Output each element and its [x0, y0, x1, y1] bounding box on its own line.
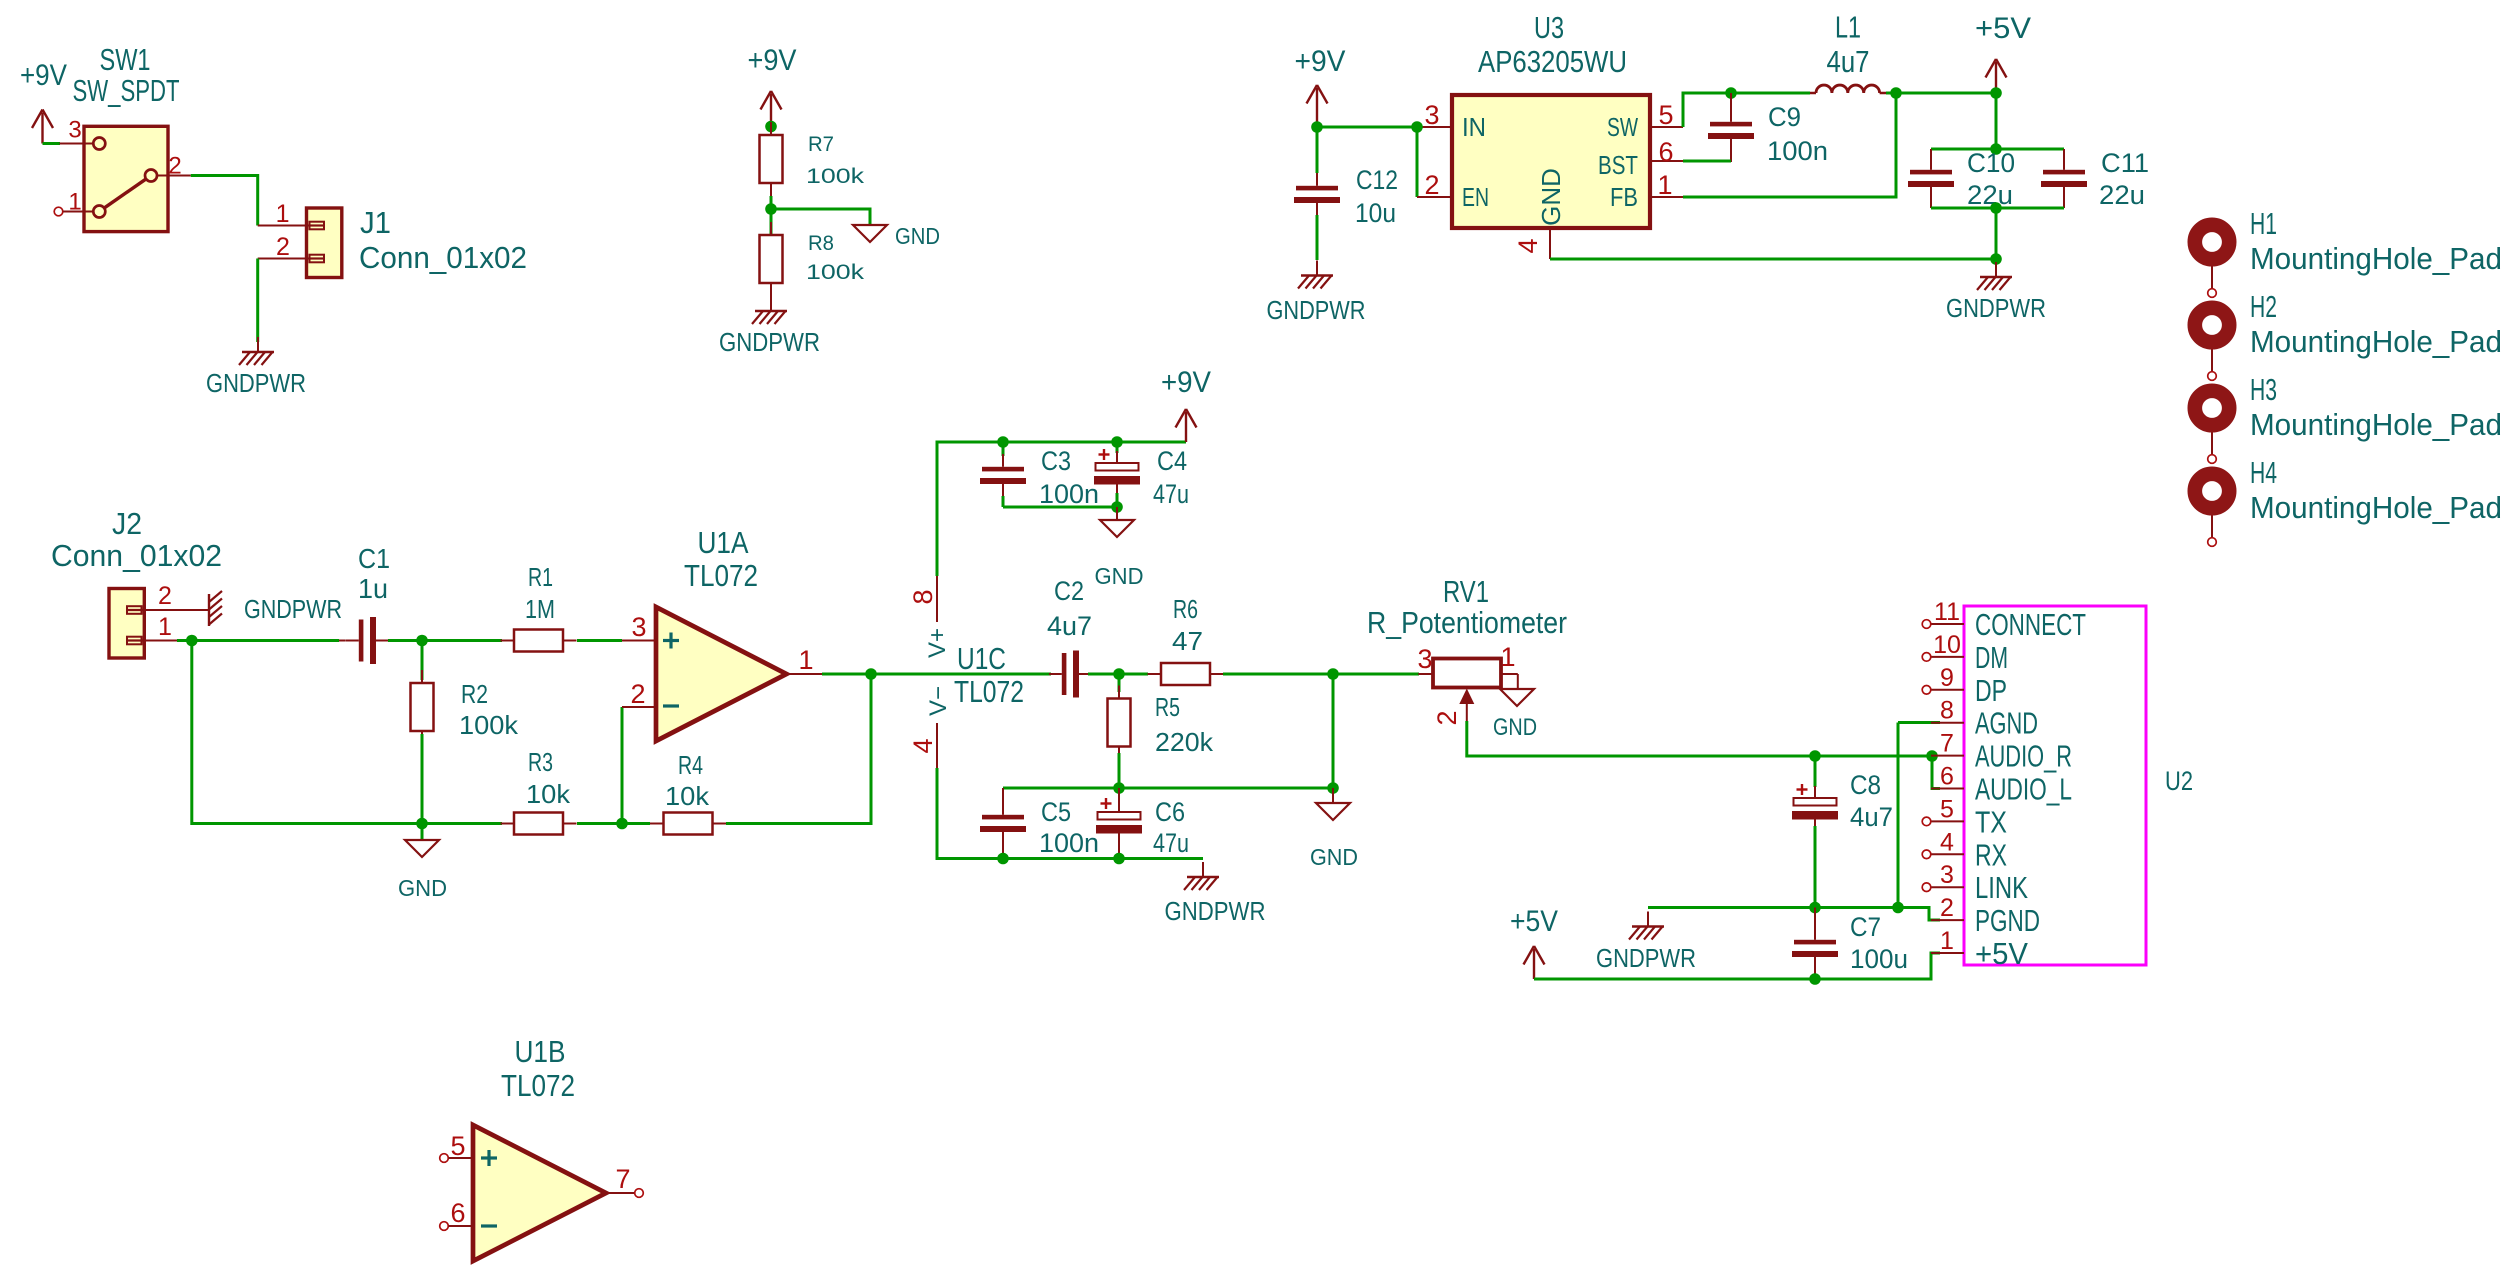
ground symbol GND (divider) — [853, 225, 887, 242]
svg-text:GNDPWR: GNDPWR — [244, 594, 342, 624]
svg-text:10u: 10u — [1355, 198, 1396, 228]
wire V+ to +9V rail — [937, 442, 1186, 576]
wire PGND rail — [1648, 906, 1898, 909]
ground symbol GNDPWR (R8) — [752, 296, 787, 324]
pin 7 U1B — [606, 1189, 643, 1198]
pin 3 U1A — [622, 640, 656, 642]
svg-text:+9V: +9V — [1295, 45, 1346, 78]
junction C4 top — [1111, 436, 1123, 448]
svg-text:7: 7 — [1940, 730, 1954, 758]
svg-text:2: 2 — [1432, 710, 1462, 725]
wire SW1 pin2 to J1 pin1 — [191, 176, 258, 226]
svg-text:PGND: PGND — [1975, 903, 2040, 938]
svg-text:10k: 10k — [526, 779, 571, 809]
svg-text:Conn_01x02: Conn_01x02 — [51, 538, 222, 573]
wire RV1 wiper to U2 AUDIO — [1467, 721, 1932, 756]
ground symbol GNDPWR (J2) — [209, 591, 222, 626]
svg-text:4: 4 — [908, 738, 938, 753]
potentiometer RV1 — [1418, 659, 1518, 722]
svg-text:22u: 22u — [2099, 180, 2145, 210]
svg-text:+5V: +5V — [1975, 936, 2028, 971]
svg-text:TL072: TL072 — [501, 1068, 575, 1103]
svg-text:22u: 22u — [1967, 180, 2013, 210]
capacitor C4 (polarized) — [1094, 442, 1140, 507]
svg-text:3: 3 — [1940, 861, 1954, 889]
svg-text:+9V: +9V — [748, 44, 797, 77]
svg-text:+9V: +9V — [1161, 366, 1211, 399]
wire EN tap — [1416, 127, 1419, 197]
capacitor C3 — [980, 442, 1026, 507]
svg-text:4: 4 — [1513, 238, 1543, 253]
junction C8 bottom — [1809, 902, 1821, 914]
svg-text:C6: C6 — [1155, 797, 1185, 827]
capacitor C11 — [2041, 149, 2087, 208]
wire SW to top rail — [1683, 93, 1810, 127]
ground symbol GND (C4) — [1100, 507, 1134, 537]
junction C5 bottom — [997, 853, 1009, 865]
wire U3 GND pin rail — [1550, 258, 1996, 261]
svg-text:MountingHole_Pad: MountingHole_Pad — [2250, 490, 2502, 525]
svg-text:H1: H1 — [2250, 206, 2277, 241]
wire +9V to SW1 pin 3 — [43, 142, 61, 145]
svg-text:9: 9 — [1940, 664, 1954, 692]
svg-text:FB: FB — [1610, 182, 1638, 212]
svg-text:C3: C3 — [1041, 446, 1071, 476]
junction AUDIO_R — [1926, 750, 1938, 762]
svg-text:TL072: TL072 — [684, 558, 758, 593]
svg-text:GND: GND — [1493, 714, 1537, 741]
ground symbol GNDPWR (U1C) — [1184, 862, 1219, 890]
svg-text:Conn_01x02: Conn_01x02 — [359, 240, 527, 275]
pin 2 EN (U3) — [1417, 196, 1452, 198]
resistor R8 — [760, 222, 783, 296]
pin 3 IN (U3) — [1417, 126, 1452, 128]
wire R3 to R4 — [577, 822, 650, 825]
svg-text:GNDPWR: GNDPWR — [1267, 295, 1366, 325]
svg-text:5: 5 — [1940, 795, 1954, 823]
junction +5V — [1990, 87, 2002, 99]
wire AUDIO_R to AUDIO_L — [1932, 756, 1940, 789]
svg-text:H2: H2 — [2250, 289, 2277, 324]
pin 5 TX (U2) — [1922, 817, 1964, 826]
svg-text:C4: C4 — [1157, 446, 1187, 476]
power symbol +5V (U2) — [1510, 905, 1558, 979]
svg-text:C5: C5 — [1041, 797, 1071, 827]
capacitor C10 — [1908, 149, 1954, 208]
svg-text:V+: V+ — [924, 628, 951, 658]
capacitor C5 — [980, 788, 1026, 859]
svg-text:3: 3 — [68, 117, 81, 144]
svg-text:47: 47 — [1172, 626, 1203, 656]
ground symbol GNDPWR (U3) — [1977, 262, 2012, 290]
svg-text:R4: R4 — [678, 750, 703, 780]
power symbol +9V (SW1) — [20, 59, 67, 144]
svg-text:GND: GND — [895, 223, 940, 249]
svg-text:GNDPWR: GNDPWR — [1596, 943, 1696, 973]
wire J1 pin2 to ground — [256, 259, 259, 343]
power symbol +9V (R7) — [748, 44, 797, 126]
svg-text:100k: 100k — [459, 710, 519, 740]
svg-text:1: 1 — [1657, 170, 1672, 200]
svg-text:MountingHole_Pad: MountingHole_Pad — [2250, 407, 2502, 442]
junction C10/C11 top — [1990, 143, 2002, 155]
svg-text:1: 1 — [1940, 927, 1954, 955]
svg-text:R8: R8 — [808, 232, 834, 255]
pin 7 AUDIO_R (U2) — [1931, 755, 1964, 757]
wire +5V down to C10/C11 rail — [1995, 93, 1998, 149]
capacitor C12 — [1294, 127, 1340, 260]
svg-text:4u7: 4u7 — [1827, 44, 1870, 79]
svg-text:C7: C7 — [1850, 912, 1881, 942]
svg-text:1u: 1u — [358, 573, 388, 604]
wire J2 pin1 to C1 — [177, 639, 339, 642]
power symbol +9V (U3) — [1295, 45, 1346, 127]
mounting hole H4 — [2195, 474, 2229, 547]
ground symbol GND (mid rail) — [1316, 788, 1350, 820]
junction IN/EN tap — [1411, 121, 1423, 133]
junction C9 top — [1725, 87, 1737, 99]
junction L1 right — [1890, 87, 1902, 99]
svg-text:MountingHole_Pad: MountingHole_Pad — [2250, 241, 2502, 276]
svg-text:7: 7 — [615, 1164, 630, 1194]
svg-text:U3: U3 — [1534, 10, 1564, 45]
wire C3/C4 bottom link — [1003, 506, 1117, 509]
svg-text:GNDPWR: GNDPWR — [206, 368, 306, 398]
svg-text:4u7: 4u7 — [1047, 611, 1092, 641]
op-amp U1C power pins — [936, 576, 938, 768]
svg-text:U1B: U1B — [515, 1034, 566, 1069]
wire rail down to GND net — [1995, 208, 1998, 259]
wire FB loop — [1683, 93, 1896, 197]
svg-text:TX: TX — [1975, 804, 2007, 839]
pin 4 RX (U2) — [1922, 850, 1964, 859]
svg-text:GND: GND — [1310, 844, 1358, 870]
svg-text:DM: DM — [1975, 640, 2008, 675]
wire R4 to output — [726, 674, 871, 824]
svg-text:C10: C10 — [1967, 148, 2015, 178]
inductor L1 — [1810, 85, 1886, 93]
svg-text:H4: H4 — [2250, 455, 2277, 490]
module U2 (sheet box) — [1964, 606, 2146, 965]
svg-text:R3: R3 — [528, 747, 553, 777]
svg-text:RV1: RV1 — [1443, 574, 1489, 609]
junction RV1 rail to GND branch — [1327, 668, 1339, 680]
ground symbol GND (RV1 pin1) — [1500, 689, 1534, 706]
power symbol +9V (U1C) — [1161, 366, 1211, 442]
svg-text:4: 4 — [1940, 828, 1954, 856]
svg-text:+5V: +5V — [1510, 905, 1558, 938]
junction C1/R1/R2 — [416, 635, 428, 647]
wire PGND jog to pin2 — [1898, 908, 1940, 921]
svg-text:DP: DP — [1975, 673, 2007, 708]
svg-text:GNDPWR: GNDPWR — [1165, 896, 1266, 926]
svg-text:100n: 100n — [1767, 136, 1828, 166]
wire +9V to U3 IN — [1317, 126, 1417, 129]
svg-text:L1: L1 — [1835, 10, 1861, 45]
svg-text:2: 2 — [158, 582, 172, 610]
wire AGND riser — [1897, 723, 1900, 908]
svg-text:1M: 1M — [525, 594, 555, 624]
svg-text:2: 2 — [1940, 894, 1954, 922]
wire GND branch (RV1 rail) — [1332, 674, 1335, 788]
pin 6 AUDIO_L (U2) — [1931, 788, 1964, 790]
wire R1 to U1A pin3 — [577, 639, 622, 642]
svg-text:2: 2 — [1424, 170, 1439, 200]
capacitor C6 (polarized) — [1096, 788, 1142, 859]
ground symbol GNDPWR (C12) — [1298, 261, 1333, 289]
svg-text:10k: 10k — [665, 781, 710, 811]
svg-text:R6: R6 — [1173, 594, 1198, 624]
pin 2 U1A — [622, 706, 656, 708]
svg-text:1: 1 — [68, 189, 81, 216]
mounting hole H1 — [2195, 225, 2229, 298]
svg-text:1: 1 — [276, 200, 290, 228]
wire C10/C11 top rail — [1931, 148, 2064, 151]
svg-text:6: 6 — [450, 1198, 465, 1228]
junction +9V C12 — [1311, 121, 1323, 133]
svg-text:220k: 220k — [1155, 727, 1214, 757]
svg-text:GNDPWR: GNDPWR — [719, 327, 820, 357]
svg-text:100n: 100n — [1039, 828, 1099, 858]
svg-text:6: 6 — [1940, 763, 1954, 791]
capacitor C2 — [1049, 651, 1119, 698]
wire BST to C9 — [1683, 160, 1731, 163]
pin J2-2 to GNDPWR — [177, 609, 208, 611]
resistor R2 — [411, 641, 434, 824]
junction C10/C11 bottom — [1990, 202, 2002, 214]
pin 1 +5V (U2) — [1931, 952, 1964, 954]
svg-text:C1: C1 — [358, 543, 390, 574]
capacitor C7 — [1792, 908, 1838, 980]
svg-text:V−: V− — [925, 686, 952, 716]
pin 9 DP (U2) — [1922, 686, 1964, 695]
svg-text:R1: R1 — [528, 562, 553, 592]
svg-text:GND: GND — [398, 875, 447, 901]
svg-text:3: 3 — [1417, 644, 1432, 674]
junction J2 pin1 — [186, 635, 198, 647]
svg-text:EN: EN — [1462, 182, 1489, 212]
wire U1A output to C2 — [822, 673, 1051, 676]
svg-text:AGND: AGND — [1975, 706, 2038, 741]
svg-text:100k: 100k — [806, 261, 865, 284]
op-amp U1A TL072 — [656, 607, 787, 741]
junction C7 bottom — [1809, 973, 1821, 985]
svg-text:GND: GND — [1095, 563, 1144, 589]
svg-text:5: 5 — [450, 1131, 465, 1161]
svg-text:3: 3 — [631, 612, 646, 642]
wire mid ground rail — [1003, 787, 1333, 790]
svg-text:1: 1 — [798, 645, 813, 675]
svg-text:MountingHole_Pad: MountingHole_Pad — [2250, 324, 2502, 359]
connector J1 Conn_01x02 — [258, 208, 342, 278]
svg-text:+5V: +5V — [1975, 12, 2031, 45]
svg-text:C12: C12 — [1356, 165, 1398, 195]
resistor R6 — [1119, 663, 1419, 685]
svg-text:2: 2 — [630, 679, 645, 709]
svg-text:47u: 47u — [1153, 828, 1189, 858]
junction GND branch bottom — [1327, 782, 1339, 794]
svg-text:+9V: +9V — [20, 59, 67, 92]
pin 2 PGND (U2) — [1931, 919, 1964, 921]
junction C3 top — [997, 436, 1009, 448]
svg-text:47u: 47u — [1153, 479, 1189, 509]
ground symbol GND (R2) — [405, 824, 439, 858]
pin 8 AGND (U2) — [1931, 722, 1964, 724]
svg-text:R2: R2 — [461, 679, 488, 709]
wire C1 to R1 — [388, 639, 502, 642]
wire R7 to R8 — [770, 196, 773, 235]
junction R3/R4/U1A pin2 — [616, 818, 628, 830]
switch SW1 SW_SPDT — [54, 126, 191, 231]
svg-text:TL072: TL072 — [954, 674, 1024, 709]
svg-text:SW_SPDT: SW_SPDT — [73, 73, 180, 108]
svg-text:2: 2 — [168, 153, 181, 180]
svg-text:IN: IN — [1462, 112, 1486, 142]
resistor R5 — [1108, 674, 1131, 788]
pin 3 LINK (U2) — [1922, 883, 1964, 892]
svg-text:1: 1 — [158, 613, 172, 641]
pin 5 U1B — [440, 1154, 473, 1163]
svg-text:11: 11 — [1934, 598, 1960, 626]
svg-text:U1A: U1A — [698, 525, 749, 560]
power symbol +5V (U3 out) — [1975, 12, 2031, 93]
op-amp U1B TL072 — [473, 1125, 606, 1261]
svg-text:10: 10 — [1933, 631, 1961, 659]
svg-text:100n: 100n — [1039, 479, 1099, 509]
junction U1A output — [865, 668, 877, 680]
svg-text:8: 8 — [908, 589, 938, 604]
svg-text:100k: 100k — [806, 165, 865, 188]
junction R2 bottom — [416, 818, 428, 830]
resistor R7 — [760, 122, 783, 196]
svg-text:5: 5 — [1658, 100, 1673, 130]
svg-text:H3: H3 — [2250, 372, 2277, 407]
svg-text:C11: C11 — [2101, 148, 2149, 178]
svg-text:1: 1 — [1500, 642, 1515, 672]
svg-text:U1C: U1C — [957, 641, 1006, 676]
svg-text:BST: BST — [1598, 150, 1638, 180]
resistor R4 — [650, 813, 726, 835]
svg-text:3: 3 — [1424, 100, 1439, 130]
svg-text:6: 6 — [1658, 137, 1673, 167]
mounting hole H2 — [2195, 308, 2229, 381]
svg-text:2: 2 — [276, 233, 290, 261]
junction AGND riser bottom — [1892, 902, 1904, 914]
svg-text:LINK: LINK — [1975, 870, 2028, 905]
svg-text:GNDPWR: GNDPWR — [1946, 293, 2046, 323]
svg-text:GND: GND — [1536, 168, 1566, 226]
capacitor C1 — [339, 617, 400, 664]
svg-text:SW1: SW1 — [100, 42, 151, 77]
svg-text:R_Potentiometer: R_Potentiometer — [1367, 605, 1567, 640]
svg-text:CONNECT: CONNECT — [1975, 607, 2086, 642]
svg-text:U2: U2 — [2165, 766, 2193, 796]
svg-text:C8: C8 — [1850, 770, 1881, 800]
wire V- bottom rail — [937, 768, 1203, 859]
svg-text:AUDIO_R: AUDIO_R — [1975, 739, 2072, 774]
svg-text:4u7: 4u7 — [1850, 802, 1893, 832]
connector J2 Conn_01x02 — [109, 589, 177, 659]
ground symbol GNDPWR (J1) — [239, 337, 274, 365]
junction C2/R6/R5 — [1113, 668, 1125, 680]
IC U3 AP63205WU — [1452, 95, 1683, 259]
wire L1 to +5V — [1886, 92, 1996, 95]
svg-text:8: 8 — [1940, 697, 1954, 725]
svg-text:J1: J1 — [360, 205, 391, 240]
svg-text:100u: 100u — [1850, 944, 1908, 974]
junction R5 bottom — [1113, 782, 1125, 794]
svg-text:R5: R5 — [1155, 692, 1180, 722]
svg-text:R7: R7 — [808, 133, 834, 156]
svg-text:RX: RX — [1975, 837, 2007, 872]
wire C10/C11 bottom rail — [1931, 207, 2064, 210]
resistor R1 — [501, 630, 577, 652]
junction C8 top — [1809, 750, 1821, 762]
mounting hole H3 — [2195, 391, 2229, 464]
wire pin2 riser — [621, 707, 624, 824]
svg-text:C9: C9 — [1768, 102, 1801, 132]
junction R7 top — [765, 121, 777, 133]
svg-text:SW: SW — [1607, 112, 1638, 142]
capacitor C8 (polarized) — [1792, 756, 1838, 908]
junction C6 bottom — [1113, 853, 1125, 865]
wire feedback bottom rail — [192, 641, 502, 824]
pin 6 U1B — [440, 1222, 473, 1231]
junction C4 bottom — [1111, 501, 1123, 513]
svg-text:AP63205WU: AP63205WU — [1478, 44, 1627, 79]
ground symbol GNDPWR (U2) — [1629, 912, 1664, 940]
resistor R3 — [501, 813, 577, 835]
pin 11 CONNECT (U2) — [1922, 620, 1964, 629]
junction divider tap — [765, 203, 777, 215]
pin 1 U1A — [787, 673, 823, 675]
svg-text:C2: C2 — [1054, 576, 1084, 606]
wire +5V rail to U2 pin1 — [1534, 953, 1940, 979]
pin 10 DM (U2) — [1922, 653, 1964, 662]
svg-text:AUDIO_L: AUDIO_L — [1975, 772, 2072, 807]
svg-text:J2: J2 — [112, 506, 142, 541]
capacitor C9 — [1708, 93, 1754, 162]
wire AGND to pin8 — [1898, 721, 1940, 724]
wire tap to GND — [771, 209, 870, 224]
junction GNDPWR (U3) — [1990, 253, 2002, 265]
